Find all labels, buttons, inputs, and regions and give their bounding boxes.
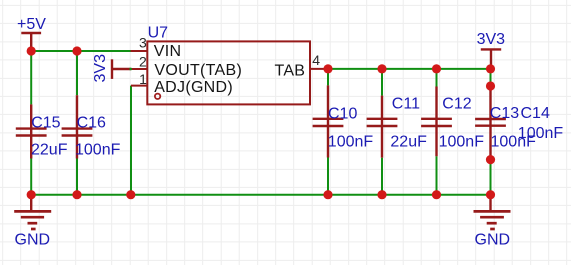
svg-text:100nF: 100nF [439, 134, 485, 151]
svg-text:C11: C11 [392, 96, 420, 113]
wire bottom ground bus [31, 194, 490, 196]
svg-text:100nF: 100nF [328, 134, 374, 151]
capacitor C11 [367, 96, 398, 158]
svg-text:TAB: TAB [274, 63, 305, 80]
wire C13 C14 top [490, 69, 492, 86]
junction dot TAB / C10 [323, 64, 332, 73]
svg-text:GND: GND [15, 232, 51, 249]
junction dot C11 top [377, 64, 386, 73]
power 3V3 symbol at VOUT pin (rotated) [112, 59, 131, 79]
svg-text:C12: C12 [442, 96, 471, 113]
wire top-left bus +5V to VIN [31, 50, 131, 52]
junction dot +5V / C15 [27, 46, 36, 55]
capacitor C16 [62, 95, 93, 158]
svg-text:2: 2 [139, 54, 147, 70]
pin 3 VIN stub [131, 50, 148, 52]
pin 1 ADJ stub [131, 85, 147, 87]
wire C11 bottom [381, 158, 383, 195]
pin 2 VOUT stub [131, 68, 147, 70]
capacitor C10 [313, 85, 344, 157]
svg-text:100nF: 100nF [518, 125, 564, 142]
junction dot C15 bottom [27, 190, 36, 199]
svg-text:100nF: 100nF [75, 142, 121, 159]
junction dot GND right [486, 190, 495, 199]
wire stub at pin 2 (3V3 net) [130, 68, 132, 70]
wire C16 top [76, 51, 78, 95]
svg-text:C10: C10 [328, 106, 357, 123]
junction dot C11 bottom [377, 190, 386, 199]
wire C15 bottom [30, 159, 32, 195]
svg-text:C13: C13 [490, 105, 519, 122]
svg-text:3: 3 [139, 34, 147, 50]
wire C12 top [436, 69, 438, 87]
wire C10 bottom [327, 158, 329, 195]
wire C15 top [30, 51, 32, 104]
junction dot C16 top [72, 46, 81, 55]
ground symbol right [474, 195, 511, 229]
junction dot C13 C14 bottom [486, 155, 495, 164]
wire C13 C14 bottom [490, 160, 492, 195]
svg-text:1: 1 [139, 71, 147, 87]
wire C10 top [327, 69, 329, 86]
junction dot C13 C14 top [486, 81, 495, 90]
capacitor C12 [421, 87, 452, 157]
svg-text:3V3: 3V3 [477, 31, 506, 48]
svg-text:22uF: 22uF [390, 134, 427, 151]
svg-text:GND: GND [475, 232, 511, 249]
wire C12 bottom [436, 156, 438, 195]
op-amp U7 regulator body [147, 41, 310, 104]
power 3V3 symbol top right [481, 49, 501, 68]
wire C16 bottom [76, 159, 78, 195]
junction dot ADJ bottom [126, 190, 135, 199]
svg-text:C14: C14 [521, 105, 550, 122]
capacitor C13 [475, 86, 506, 160]
junction dot C12 top [432, 64, 441, 73]
junction dot 3V3 bus [486, 64, 495, 73]
svg-text:4: 4 [312, 52, 320, 68]
svg-text:VOUT(TAB): VOUT(TAB) [154, 62, 242, 79]
wire C11 top [381, 69, 383, 96]
ADJ pin origin circle [155, 94, 160, 99]
capacitor C15 [16, 104, 47, 158]
wire ADJ pin down to ground bus [130, 86, 132, 195]
ground symbol left [14, 195, 51, 229]
power +5V symbol [21, 33, 41, 50]
svg-text:+5V: +5V [17, 16, 46, 33]
svg-text:3V3: 3V3 [92, 54, 109, 83]
junction dot C10 bottom [323, 190, 332, 199]
pin 4 TAB stub [310, 68, 328, 70]
junction dot C16 bottom [72, 190, 81, 199]
svg-text:C16: C16 [77, 114, 106, 131]
svg-text:22uF: 22uF [31, 142, 68, 159]
svg-text:U7: U7 [148, 25, 169, 42]
junction dot C12 bottom [432, 190, 441, 199]
svg-text:ADJ(GND): ADJ(GND) [154, 79, 233, 96]
svg-text:C15: C15 [31, 114, 60, 131]
svg-text:VIN: VIN [154, 43, 182, 60]
wire top-right 3V3 bus [328, 68, 491, 70]
